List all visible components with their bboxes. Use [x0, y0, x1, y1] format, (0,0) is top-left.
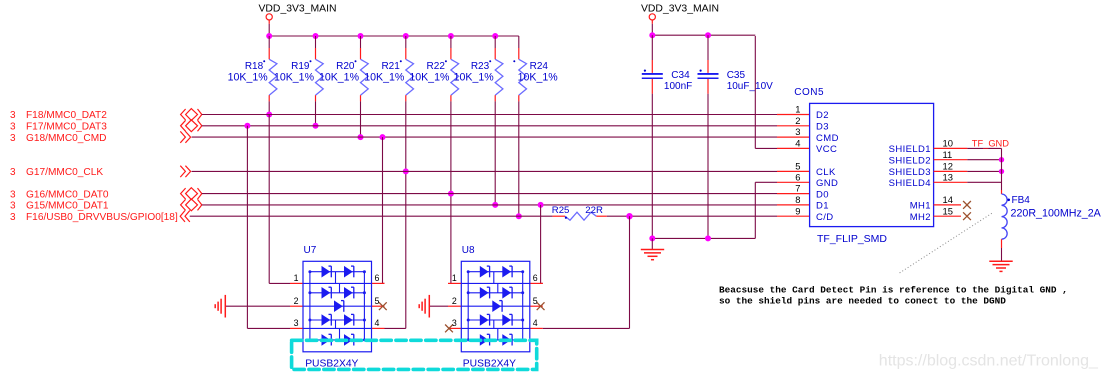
- svg-text:D0: D0: [816, 189, 829, 200]
- svg-text:CON5: CON5: [794, 87, 824, 98]
- svg-text:3: 3: [10, 133, 16, 144]
- svg-text:SHIELD1: SHIELD1: [889, 144, 931, 155]
- svg-text:VDD_3V3_MAIN: VDD_3V3_MAIN: [641, 3, 719, 14]
- svg-text:5: 5: [533, 296, 538, 306]
- svg-text:R21: R21: [381, 61, 400, 72]
- svg-text:10uF_10V: 10uF_10V: [727, 81, 773, 92]
- svg-text:R19: R19: [291, 61, 310, 72]
- svg-text:3: 3: [10, 167, 16, 178]
- svg-text:R24: R24: [530, 61, 549, 72]
- svg-text:2: 2: [795, 115, 800, 126]
- svg-text:https://blog.csdn.net/Tronlong: https://blog.csdn.net/Tronlong_: [879, 352, 1099, 369]
- svg-text:MH2: MH2: [910, 212, 931, 223]
- svg-text:10K_1%: 10K_1%: [364, 71, 405, 83]
- svg-text:VDD_3V3_MAIN: VDD_3V3_MAIN: [259, 3, 337, 14]
- svg-text:MH1: MH1: [910, 201, 931, 212]
- svg-text:6: 6: [795, 171, 800, 182]
- svg-text:10K_1%: 10K_1%: [454, 71, 495, 83]
- svg-text:G15/MMC0_DAT1: G15/MMC0_DAT1: [26, 201, 109, 212]
- svg-text:4: 4: [533, 318, 538, 328]
- svg-text:10K_1%: 10K_1%: [319, 71, 360, 83]
- svg-text:14: 14: [943, 194, 953, 205]
- svg-text:2: 2: [452, 296, 457, 306]
- svg-text:CMD: CMD: [816, 133, 839, 144]
- svg-text:C34: C34: [671, 70, 690, 81]
- svg-text:13: 13: [943, 171, 953, 182]
- svg-text:12: 12: [943, 161, 953, 172]
- svg-text:7: 7: [795, 183, 800, 194]
- svg-text:G16/MMC0_DAT0: G16/MMC0_DAT0: [26, 189, 109, 200]
- svg-text:10: 10: [943, 138, 953, 149]
- svg-text:3: 3: [10, 212, 16, 223]
- svg-text:C35: C35: [727, 70, 746, 81]
- svg-text:11: 11: [943, 149, 953, 160]
- svg-text:22R: 22R: [585, 205, 603, 216]
- svg-text:3: 3: [10, 110, 16, 121]
- svg-text:GND: GND: [816, 178, 838, 189]
- svg-text:3: 3: [10, 189, 16, 200]
- svg-text:5: 5: [795, 161, 800, 172]
- svg-text:3: 3: [795, 126, 800, 137]
- svg-text:C/D: C/D: [816, 212, 834, 223]
- svg-text:1: 1: [294, 273, 299, 283]
- svg-text:6: 6: [375, 273, 380, 283]
- svg-text:Beacsuse the Card Detect Pin i: Beacsuse the Card Detect Pin is referenc…: [719, 284, 1068, 295]
- svg-text:FB4: FB4: [1012, 195, 1031, 206]
- svg-text:220R_100MHz_2A: 220R_100MHz_2A: [1011, 207, 1102, 219]
- svg-text:R23: R23: [471, 61, 490, 72]
- svg-text:U7: U7: [304, 245, 317, 256]
- svg-text:TF_FLIP_SMD: TF_FLIP_SMD: [817, 233, 887, 245]
- svg-text:10K_1%: 10K_1%: [518, 71, 559, 83]
- svg-text:15: 15: [943, 205, 953, 216]
- svg-text:3: 3: [452, 318, 457, 328]
- svg-text:R22: R22: [427, 61, 446, 72]
- svg-text:3: 3: [294, 318, 299, 328]
- svg-text:U8: U8: [462, 245, 475, 256]
- svg-text:D2: D2: [816, 110, 829, 121]
- svg-text:G17/MMC0_CLK: G17/MMC0_CLK: [26, 167, 103, 178]
- svg-text:6: 6: [533, 273, 538, 283]
- svg-text:4: 4: [795, 138, 800, 149]
- svg-text:F17/MMC0_DAT3: F17/MMC0_DAT3: [26, 122, 107, 133]
- svg-text:3: 3: [10, 201, 16, 212]
- svg-text:D1: D1: [816, 201, 829, 212]
- svg-text:2: 2: [294, 296, 299, 306]
- svg-text:SHIELD2: SHIELD2: [889, 155, 931, 166]
- svg-text:5: 5: [375, 296, 380, 306]
- svg-text:R25: R25: [552, 205, 570, 216]
- svg-text:10K_1%: 10K_1%: [409, 71, 450, 83]
- svg-text:CLK: CLK: [816, 167, 836, 178]
- svg-text:1: 1: [795, 104, 800, 115]
- svg-text:100nF: 100nF: [664, 81, 692, 92]
- svg-text:SHIELD4: SHIELD4: [889, 178, 931, 189]
- svg-text:D3: D3: [816, 122, 829, 133]
- svg-text:VCC: VCC: [816, 144, 837, 155]
- svg-text:SHIELD3: SHIELD3: [889, 167, 931, 178]
- svg-text:TF_GND: TF_GND: [972, 139, 1009, 149]
- svg-text:10K_1%: 10K_1%: [228, 71, 269, 83]
- svg-text:R18: R18: [245, 61, 264, 72]
- svg-text:G18/MMC0_CMD: G18/MMC0_CMD: [26, 133, 106, 144]
- svg-text:4: 4: [375, 318, 380, 328]
- svg-text:9: 9: [795, 205, 800, 216]
- svg-text:10K_1%: 10K_1%: [274, 71, 315, 83]
- svg-text:3: 3: [10, 122, 16, 133]
- svg-text:R20: R20: [336, 61, 355, 72]
- svg-text:1: 1: [452, 273, 457, 283]
- svg-text:so the shield pins are needed: so the shield pins are needed to conect …: [719, 295, 1006, 306]
- svg-text:8: 8: [795, 194, 800, 205]
- svg-text:F16/USB0_DRVVBUS/GPIO0[18]: F16/USB0_DRVVBUS/GPIO0[18]: [26, 212, 178, 223]
- svg-text:F18/MMC0_DAT2: F18/MMC0_DAT2: [26, 110, 107, 121]
